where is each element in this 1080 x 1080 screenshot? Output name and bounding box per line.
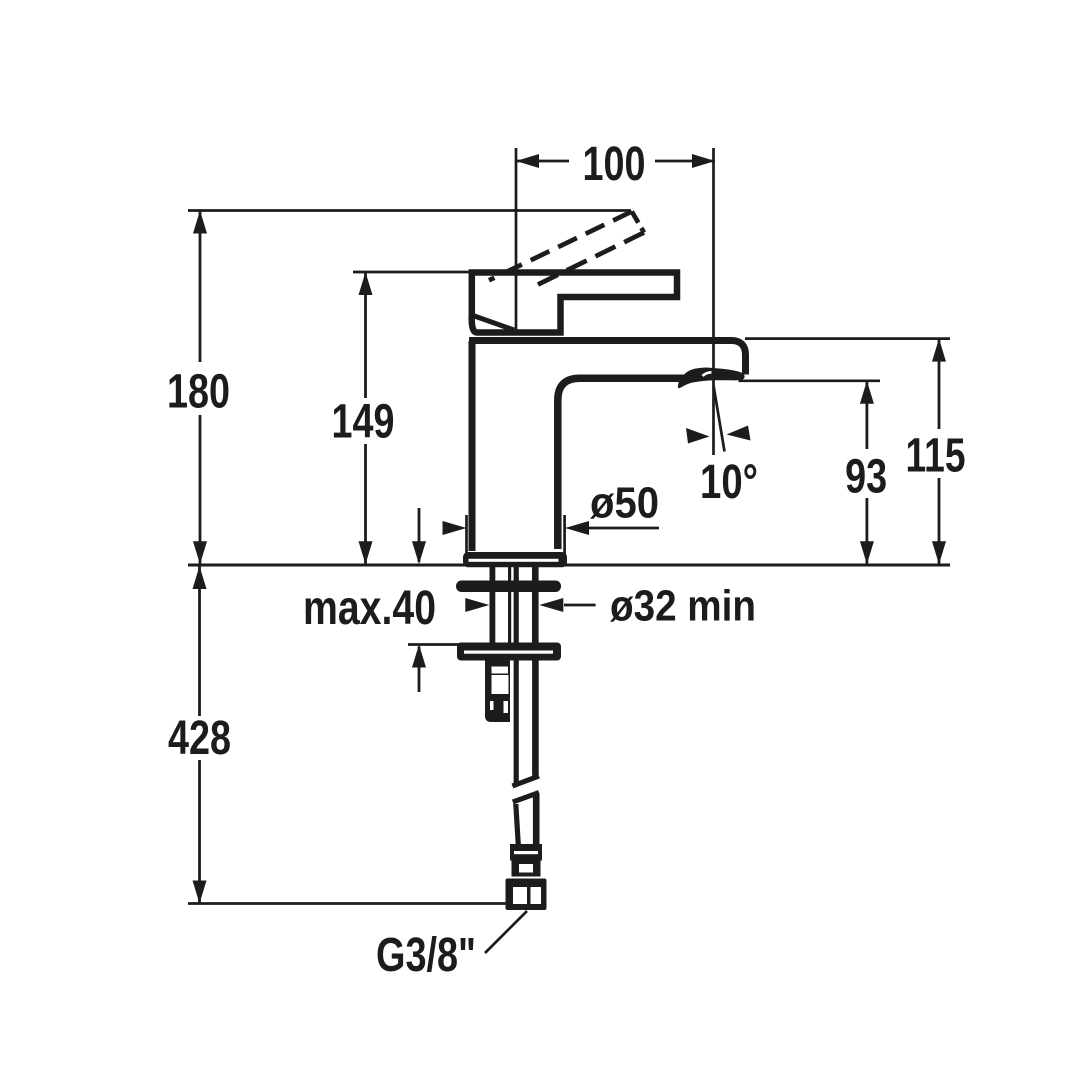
aerator outlet — [678, 368, 745, 389]
reference line handle top (149) — [353, 271, 471, 274]
svg-text:ø32 min: ø32 min — [610, 582, 756, 631]
dimension 180 line — [193, 211, 207, 565]
dimension diameter 50 extension lines — [465, 515, 468, 555]
mounting flange — [457, 643, 561, 661]
dimension 428 line — [193, 566, 207, 904]
svg-text:428: 428 — [168, 712, 231, 765]
reference line aerator outlet (93) — [739, 379, 881, 382]
handle lever lifted (dashed) — [489, 212, 644, 285]
base plate — [463, 552, 567, 567]
svg-text:93: 93 — [845, 451, 887, 504]
gasket below counter — [456, 581, 561, 593]
faucet body left edge — [469, 341, 476, 551]
reference line spout top (115) — [745, 337, 950, 340]
svg-text:10°: 10° — [700, 456, 758, 509]
dimension 149 line — [359, 272, 373, 564]
supply hose lower segment — [513, 793, 539, 803]
reference line hose end (428 bottom) — [188, 902, 507, 905]
hose fitting band 1 — [510, 844, 542, 861]
leader line G3/8 — [485, 911, 527, 953]
angle 10 degree slant line — [714, 386, 725, 452]
svg-text:149: 149 — [332, 395, 395, 448]
dimension diameter 50 arrows — [443, 521, 660, 535]
spout underside — [558, 378, 689, 549]
fixing stud with nut — [485, 660, 510, 722]
extension line 100 right / angle reference vertical — [712, 148, 715, 455]
dimension 115 line — [932, 339, 946, 565]
svg-text:G3/8": G3/8" — [376, 929, 476, 982]
faucet body top edge and spout — [469, 341, 746, 375]
supply pipe upper left wall — [514, 566, 519, 644]
supply hose upper segment — [514, 660, 519, 784]
pop-up rod line — [508, 566, 511, 644]
dimension max.40 upper arrow — [412, 508, 426, 564]
dimension 100 line — [516, 154, 715, 168]
angle 10 degree arrows — [686, 426, 751, 444]
supply pipe upper right wall — [532, 566, 539, 644]
dimension 93 line — [860, 381, 874, 565]
handle front slope line — [473, 316, 514, 331]
dimension diameter 32 arrows — [465, 598, 595, 612]
reference line countertop / deck — [188, 564, 950, 567]
svg-text:115: 115 — [906, 430, 966, 483]
dimension max.40 lower arrow — [412, 645, 426, 693]
svg-text:100: 100 — [583, 138, 646, 191]
svg-text:ø50: ø50 — [590, 479, 659, 528]
hose fitting band 2 — [512, 861, 541, 877]
extension line 100 left — [515, 148, 518, 333]
svg-text:180: 180 — [167, 366, 230, 419]
handle lever (rest position) — [472, 273, 677, 333]
reference line nut underside (max.40) — [408, 643, 462, 646]
svg-text:max.40: max.40 — [303, 582, 436, 635]
threaded stud upper — [490, 566, 496, 644]
connection nut G3/8 — [506, 879, 547, 911]
reference line top of lifted handle (180 top) — [188, 209, 631, 212]
